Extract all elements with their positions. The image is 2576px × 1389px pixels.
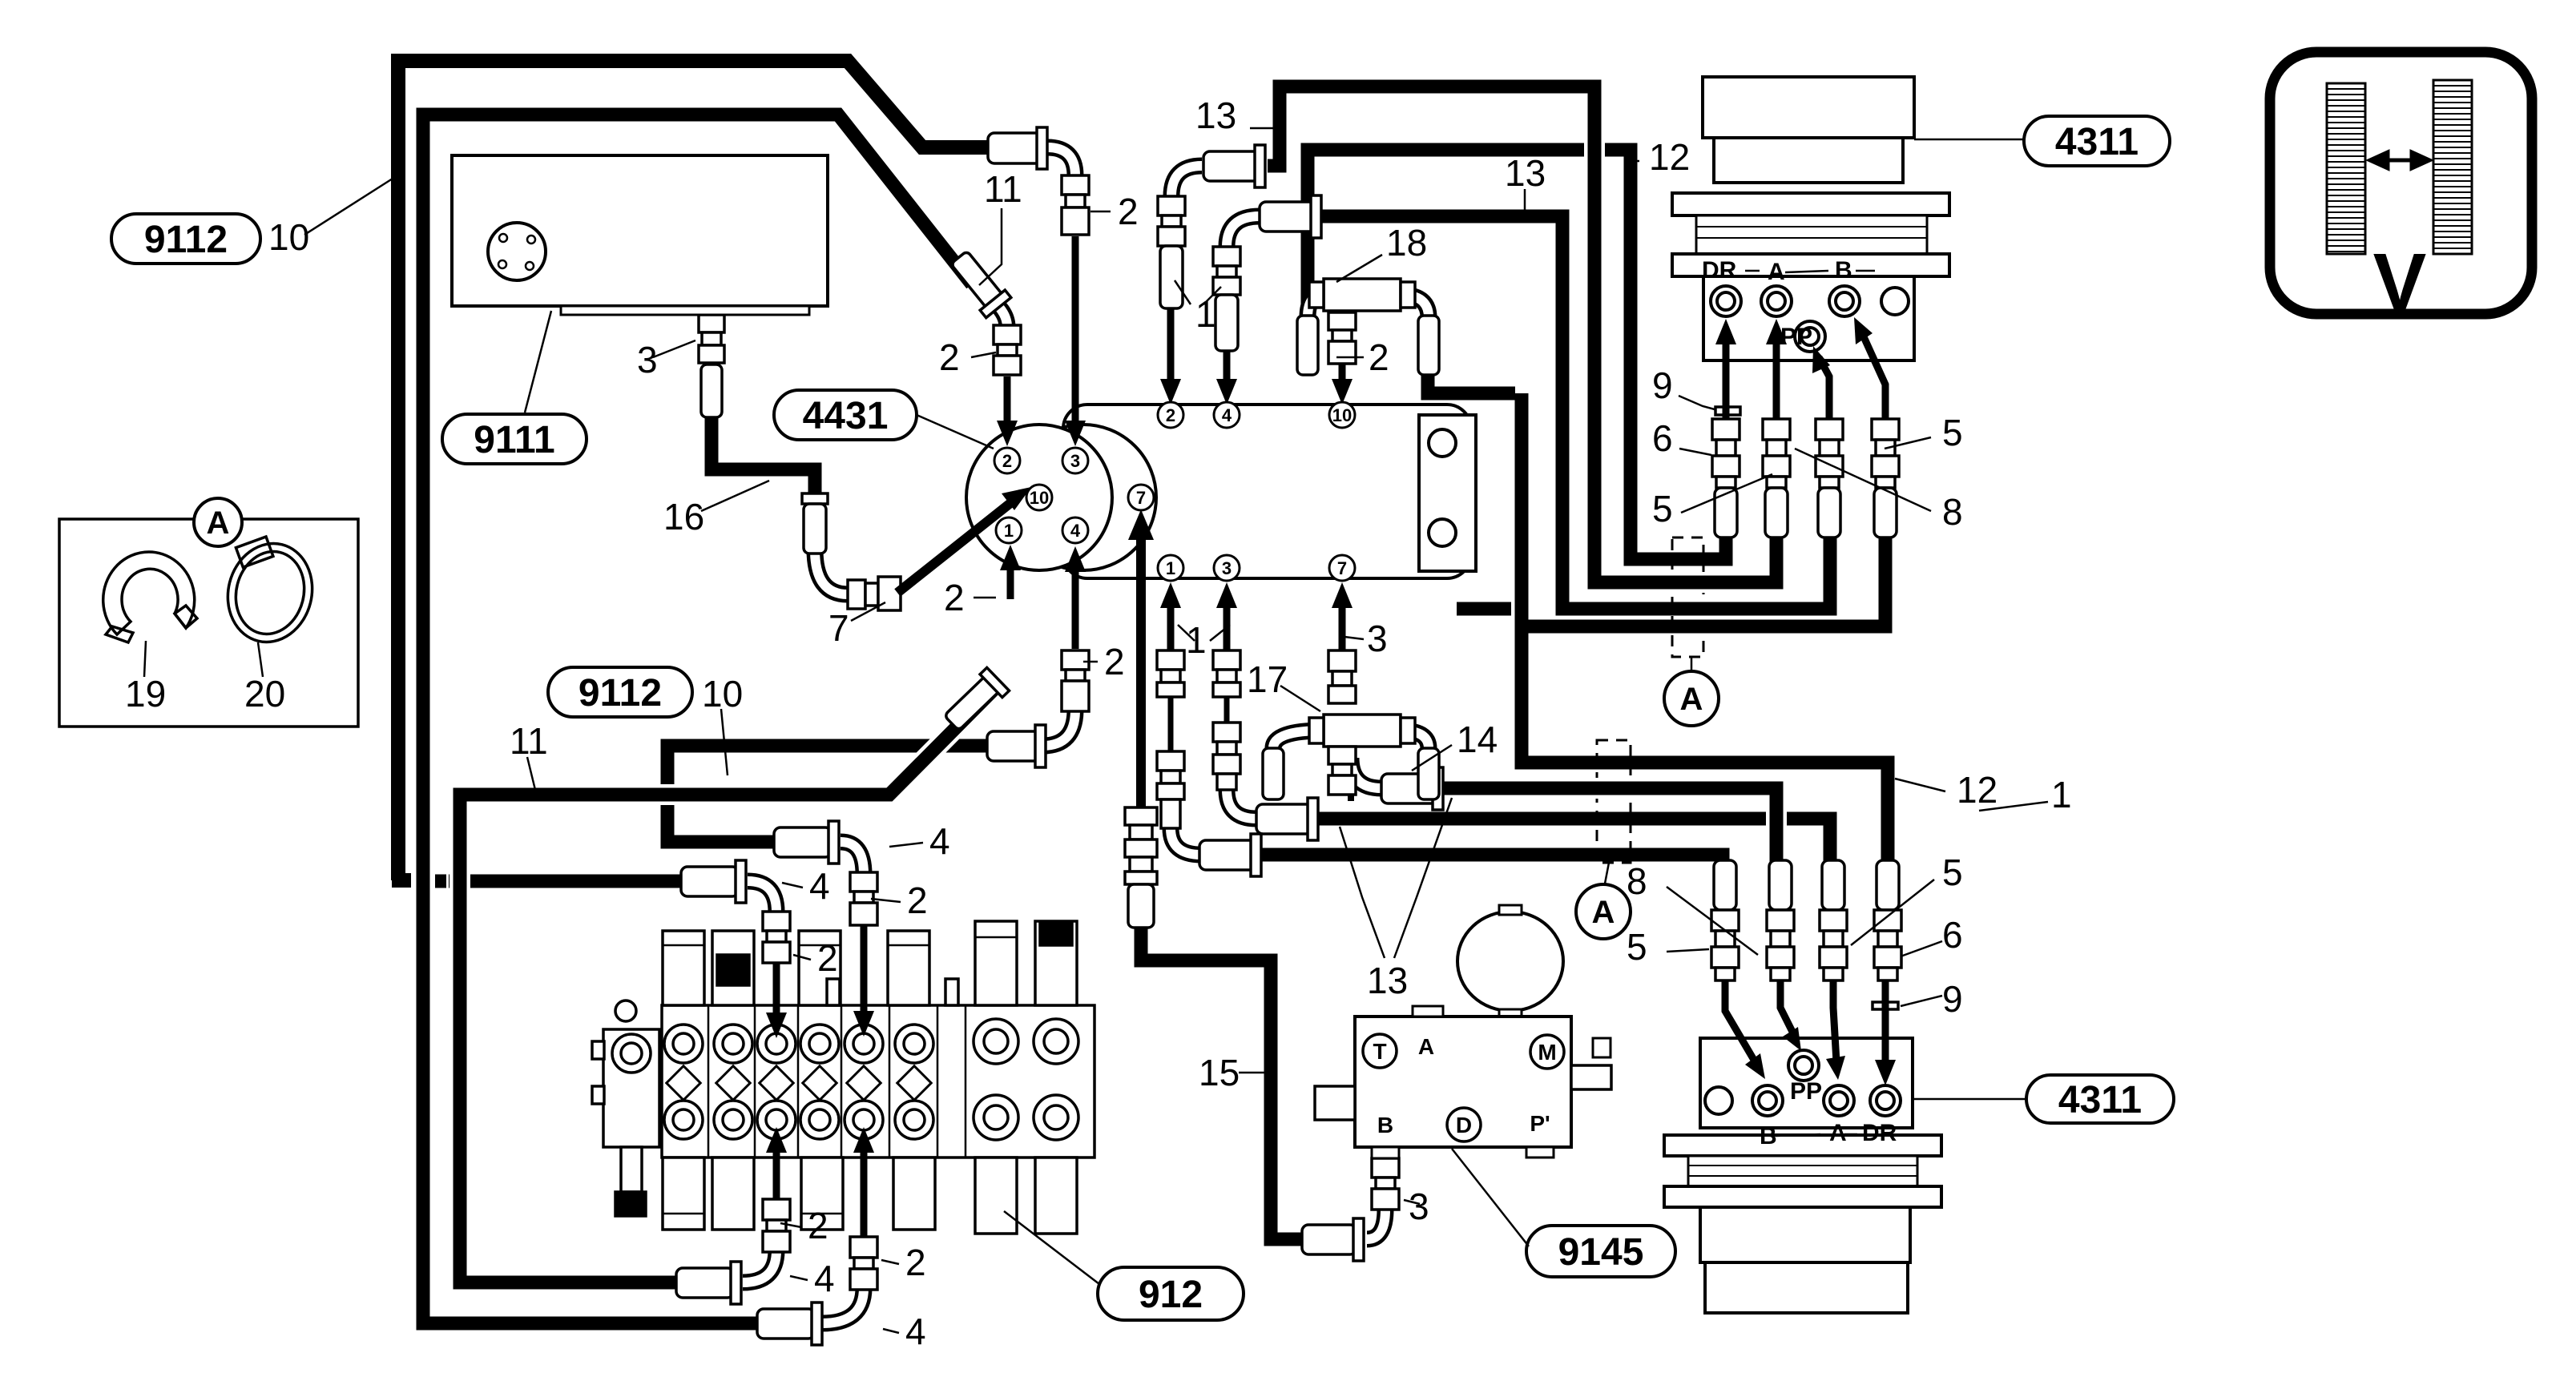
svg-text:2: 2	[817, 937, 838, 979]
svg-text:13: 13	[1505, 152, 1546, 194]
svg-text:1: 1	[1166, 558, 1175, 578]
svg-text:9: 9	[1942, 978, 1963, 1020]
svg-text:20: 20	[244, 673, 285, 715]
svg-text:9111: 9111	[474, 419, 554, 461]
svg-text:DR: DR	[1862, 1120, 1897, 1146]
svg-text:2: 2	[1166, 405, 1175, 425]
svg-text:5: 5	[1627, 926, 1647, 968]
svg-text:10: 10	[1030, 488, 1049, 508]
svg-text:12: 12	[1649, 136, 1690, 178]
svg-text:2: 2	[1104, 641, 1125, 682]
svg-text:2: 2	[1369, 336, 1389, 378]
svg-text:4431: 4431	[803, 395, 889, 437]
svg-text:B: B	[1835, 257, 1852, 284]
svg-text:14: 14	[1457, 719, 1498, 760]
svg-text:9145: 9145	[1558, 1231, 1644, 1274]
svg-text:2: 2	[1002, 451, 1012, 471]
svg-text:15: 15	[1199, 1052, 1240, 1093]
svg-text:4: 4	[814, 1258, 835, 1299]
svg-text:4: 4	[905, 1310, 926, 1352]
svg-text:10: 10	[268, 216, 309, 258]
svg-text:13: 13	[1367, 960, 1408, 1001]
svg-text:9112: 9112	[144, 219, 228, 261]
svg-text:4311: 4311	[2058, 1079, 2142, 1121]
svg-text:9112: 9112	[578, 672, 662, 715]
svg-text:A: A	[1829, 1120, 1847, 1146]
svg-text:2: 2	[808, 1205, 828, 1246]
svg-text:PP: PP	[1780, 324, 1812, 350]
svg-text:1: 1	[2051, 774, 2072, 815]
svg-text:8: 8	[1627, 860, 1647, 902]
svg-text:PP: PP	[1790, 1078, 1822, 1105]
svg-text:3: 3	[637, 339, 658, 380]
svg-text:6: 6	[1652, 417, 1673, 459]
svg-text:4: 4	[929, 820, 950, 862]
svg-text:13: 13	[1195, 95, 1236, 136]
svg-text:B: B	[1377, 1113, 1393, 1137]
svg-text:1: 1	[1195, 293, 1216, 335]
svg-text:A: A	[1592, 895, 1615, 930]
svg-text:2: 2	[1118, 191, 1139, 232]
svg-text:4: 4	[809, 865, 830, 907]
svg-text:11: 11	[984, 168, 1022, 210]
svg-text:6: 6	[1942, 914, 1963, 956]
svg-text:3: 3	[1409, 1186, 1429, 1227]
svg-text:2: 2	[907, 880, 928, 921]
svg-text:18: 18	[1386, 222, 1427, 264]
svg-text:T: T	[1373, 1039, 1386, 1064]
svg-text:P': P'	[1530, 1111, 1550, 1136]
svg-text:3: 3	[1367, 618, 1388, 659]
svg-text:5: 5	[1942, 852, 1963, 893]
svg-text:912: 912	[1139, 1274, 1203, 1316]
svg-text:3: 3	[1222, 558, 1232, 578]
svg-text:4: 4	[1222, 405, 1232, 425]
svg-text:7: 7	[828, 607, 849, 649]
svg-text:A: A	[207, 505, 230, 541]
svg-text:DR: DR	[1702, 257, 1737, 284]
svg-text:A: A	[1680, 682, 1703, 717]
svg-text:2: 2	[944, 577, 965, 618]
svg-text:10: 10	[702, 673, 743, 715]
svg-text:16: 16	[663, 496, 704, 537]
svg-text:12: 12	[1957, 769, 1998, 811]
svg-text:8: 8	[1942, 491, 1963, 533]
svg-text:4311: 4311	[2055, 121, 2139, 163]
svg-text:7: 7	[1136, 488, 1146, 508]
svg-text:2: 2	[939, 336, 960, 378]
svg-text:19: 19	[125, 673, 166, 715]
svg-text:11: 11	[510, 720, 548, 762]
svg-text:5: 5	[1942, 412, 1963, 453]
svg-text:1: 1	[1004, 521, 1014, 541]
svg-text:17: 17	[1247, 658, 1288, 700]
svg-text:10: 10	[1332, 405, 1352, 425]
svg-text:5: 5	[1652, 488, 1673, 529]
svg-text:7: 7	[1337, 558, 1347, 578]
svg-text:V: V	[2373, 237, 2427, 327]
svg-text:A: A	[1768, 259, 1785, 285]
svg-text:9: 9	[1652, 364, 1673, 406]
svg-text:D: D	[1456, 1113, 1472, 1137]
svg-text:1: 1	[1186, 619, 1207, 661]
svg-text:B: B	[1760, 1123, 1777, 1149]
svg-text:M: M	[1538, 1040, 1556, 1065]
svg-text:A: A	[1418, 1034, 1434, 1059]
svg-text:4: 4	[1070, 521, 1081, 541]
svg-text:2: 2	[905, 1242, 926, 1283]
svg-text:3: 3	[1070, 451, 1080, 471]
